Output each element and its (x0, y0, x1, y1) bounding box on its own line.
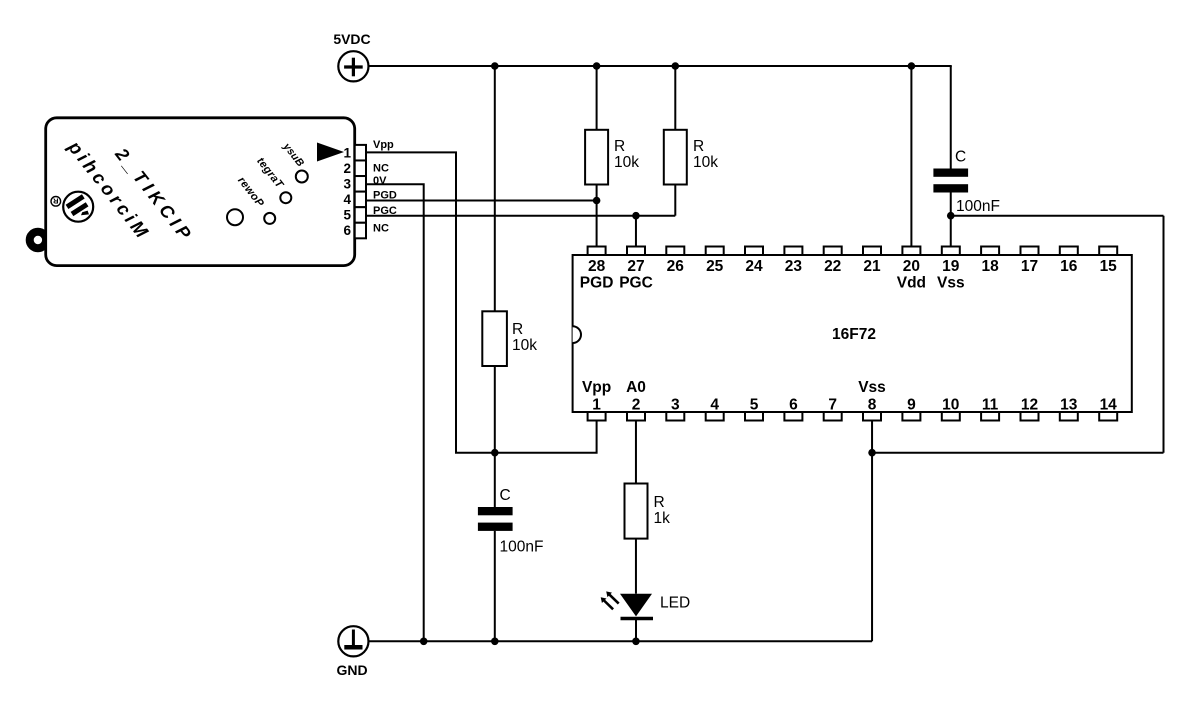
node junction Vpp/R3/C1 (491, 449, 499, 457)
svg-text:R: R (512, 321, 523, 338)
svg-text:C: C (500, 487, 511, 504)
pin 4 stub (706, 412, 724, 421)
svg-text:15: 15 (1100, 258, 1118, 275)
svg-text:NC: NC (373, 163, 389, 175)
connector pin 3 box (355, 176, 366, 192)
pin 18 stub (981, 247, 999, 256)
svg-text:28: 28 (588, 258, 606, 275)
svg-text:4: 4 (343, 192, 351, 207)
pin 2 stub (627, 412, 645, 421)
PICkit2 programmer body (30, 118, 355, 266)
diode LED D1 (620, 594, 690, 642)
LED hole small (264, 213, 275, 224)
node junction 5V/Vdd (908, 62, 916, 70)
node junction Vss/pin8 (868, 449, 876, 457)
capacitor C1 100nF (478, 453, 544, 642)
svg-text:27: 27 (627, 258, 644, 275)
connector pin 2 box (355, 160, 366, 176)
pin 12 stub (1021, 412, 1039, 421)
wire 5V to R2 (674, 66, 676, 130)
wire 5V to R3 (494, 66, 496, 311)
pin 1 stub (588, 412, 606, 421)
svg-text:13: 13 (1060, 397, 1078, 414)
svg-text:10k: 10k (614, 154, 639, 171)
svg-text:3: 3 (343, 177, 351, 192)
svg-text:22: 22 (824, 258, 841, 275)
IC top pin stubs (580, 247, 1117, 421)
IC U1 16F72 body (573, 255, 1132, 412)
pin 23 stub (784, 247, 802, 256)
wire Vss bottom run to pin8 (872, 452, 1163, 454)
svg-text:R: R (693, 138, 704, 155)
svg-text:3: 3 (671, 397, 680, 414)
svg-text:1k: 1k (654, 510, 671, 527)
svg-text:16F72: 16F72 (832, 326, 876, 343)
pin1 arrow marker (317, 143, 344, 162)
wire 5V to R1 (596, 66, 598, 130)
svg-text:11: 11 (982, 397, 999, 414)
svg-text:12: 12 (1021, 397, 1038, 414)
ground symbol GND (336, 626, 368, 678)
registered trademark symbol (51, 197, 61, 207)
svg-text:5VDC: 5VDC (333, 31, 370, 47)
wire PGD net (366, 200, 597, 202)
node junction 5V/R3 (491, 62, 499, 70)
svg-text:PGD: PGD (580, 275, 614, 292)
svg-text:A0: A0 (626, 379, 646, 396)
wire pin8 Vss to ground rail (871, 421, 873, 642)
svg-text:1: 1 (592, 397, 601, 414)
node junction 5V/R1 (593, 62, 601, 70)
pin 14 stub (1099, 412, 1117, 421)
resistor R1 10k (585, 130, 639, 185)
svg-text:2: 2 (632, 397, 641, 414)
svg-text:Vpp: Vpp (582, 379, 611, 396)
svg-text:100nF: 100nF (956, 198, 1000, 215)
svg-text:10k: 10k (512, 337, 537, 354)
power source 5VDC (333, 31, 370, 81)
connector pin 4 box (355, 192, 366, 208)
svg-text:C: C (955, 149, 966, 166)
pin 19 stub (942, 247, 960, 256)
svg-text:2: 2 (343, 161, 351, 176)
pin 15 stub (1099, 247, 1117, 256)
node junction 5V/R2 (672, 62, 680, 70)
wire Vpp net (366, 152, 597, 452)
pin 17 stub (1021, 247, 1039, 256)
wire R3 to Vpp node (494, 366, 496, 453)
pin 10 stub (942, 412, 960, 421)
wire Vss right run (951, 215, 1164, 217)
node junction GND/LED (632, 638, 640, 646)
svg-text:Vss: Vss (937, 275, 965, 292)
svg-text:PGD: PGD (373, 190, 397, 202)
pin 5 stub (745, 412, 763, 421)
node junction Vss/C2 (947, 212, 955, 220)
svg-text:23: 23 (785, 258, 803, 275)
svg-text:NC: NC (373, 223, 389, 235)
svg-text:PGC: PGC (619, 275, 653, 292)
svg-text:20: 20 (903, 258, 920, 275)
connector pin 5 box (355, 207, 366, 223)
svg-text:5: 5 (750, 397, 759, 414)
capacitor C2 100nF (933, 149, 1000, 216)
wire R1 to pin28 (596, 185, 598, 247)
svg-text:4: 4 (710, 397, 719, 414)
svg-text:19: 19 (942, 258, 960, 275)
node junction GND/C1 (491, 638, 499, 646)
svg-text:GND: GND (336, 662, 367, 678)
pin 8 stub (863, 412, 881, 421)
svg-text:16: 16 (1060, 258, 1078, 275)
LED arrows (601, 591, 619, 609)
pin 11 stub (981, 412, 999, 421)
pin 3 stub (666, 412, 684, 421)
wire 5V top rail (368, 65, 951, 67)
svg-text:6: 6 (789, 397, 798, 414)
svg-text:14: 14 (1100, 397, 1118, 414)
wire PGC net (366, 215, 675, 217)
svg-text:6: 6 (343, 223, 351, 238)
node junction PGD (593, 197, 601, 205)
pin 16 stub (1060, 247, 1078, 256)
pin 20 stub (902, 247, 920, 256)
resistor R2 10k (664, 130, 718, 185)
svg-text:17: 17 (1021, 258, 1038, 275)
LED hole Busy (296, 171, 308, 183)
wire 5V rail corner down to C2 (950, 66, 952, 169)
pin 7 stub (824, 412, 842, 421)
wire 0V net (366, 184, 424, 641)
pin 13 stub (1060, 412, 1078, 421)
svg-text:PGC: PGC (373, 205, 397, 217)
pin 24 stub (745, 247, 763, 256)
wire Vss right vertical (1163, 216, 1165, 453)
pin 6 stub (784, 412, 802, 421)
node junction GND/0V (420, 638, 428, 646)
pin 21 stub (863, 247, 881, 256)
svg-text:Vpp: Vpp (373, 139, 394, 151)
LED hole Power (227, 209, 243, 225)
svg-text:1: 1 (343, 145, 351, 160)
svg-text:R: R (654, 494, 665, 511)
wire ground rail (368, 640, 872, 642)
pin 9 stub (902, 412, 920, 421)
svg-text:21: 21 (863, 258, 881, 275)
connector pin boxes (343, 139, 396, 238)
resistor R4 1k (625, 421, 671, 594)
svg-text:Vdd: Vdd (897, 275, 926, 292)
svg-text:100nF: 100nF (500, 539, 544, 556)
svg-text:0V: 0V (373, 175, 387, 187)
wire C2 to pin19 Vss (950, 193, 952, 247)
svg-text:9: 9 (907, 397, 916, 414)
connector pin 1 box (355, 145, 366, 161)
pin 28 stub (588, 247, 606, 256)
wire PGC to pin27 (635, 216, 637, 247)
LED hole Target (280, 192, 291, 203)
svg-text:26: 26 (667, 258, 685, 275)
svg-text:10: 10 (942, 397, 959, 414)
svg-text:Vss: Vss (858, 379, 886, 396)
svg-text:LED: LED (660, 595, 690, 612)
connector pin 6 box (355, 223, 366, 239)
node junction PGC/pin27 (632, 212, 640, 220)
pin 27 stub (627, 247, 645, 256)
svg-text:7: 7 (828, 397, 837, 414)
pin 22 stub (824, 247, 842, 256)
pin 26 stub (666, 247, 684, 256)
svg-text:R: R (53, 197, 59, 206)
resistor R3 10k (482, 311, 537, 366)
svg-text:25: 25 (706, 258, 724, 275)
svg-text:R: R (614, 138, 625, 155)
wire R2 to PGC line (674, 185, 676, 216)
svg-text:5: 5 (343, 208, 351, 223)
wire 5V to pin20 Vdd (910, 66, 912, 247)
svg-text:18: 18 (981, 258, 999, 275)
svg-text:10k: 10k (693, 154, 718, 171)
pin 25 stub (706, 247, 724, 256)
Microchip logo (63, 192, 93, 222)
svg-text:24: 24 (745, 258, 763, 275)
svg-text:8: 8 (868, 397, 877, 414)
